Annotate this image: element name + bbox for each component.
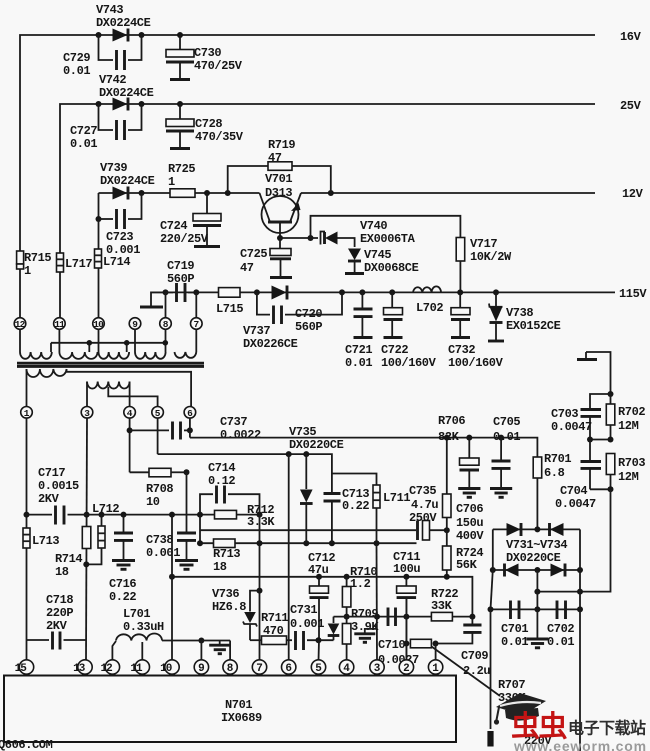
svg-text:R709: R709 — [351, 607, 378, 621]
capacitor C732 — [448, 292, 504, 370]
capacitor C721 — [345, 289, 373, 370]
svg-text:2: 2 — [403, 663, 409, 675]
svg-text:0.0022: 0.0022 — [220, 428, 261, 442]
resistor R707 — [403, 639, 526, 705]
diode V735 DX0220CE labels — [289, 425, 344, 452]
svg-text:0.01: 0.01 — [493, 430, 520, 444]
wire pin6 column — [288, 454, 290, 660]
svg-text:2KV: 2KV — [38, 492, 60, 506]
pin 7 — [191, 318, 203, 330]
wire 12V rail — [99, 193, 596, 219]
svg-text:2KV: 2KV — [46, 619, 68, 633]
svg-text:L711: L711 — [383, 491, 410, 505]
pin 10 — [93, 318, 105, 330]
svg-text:9: 9 — [198, 663, 204, 675]
svg-text:12: 12 — [15, 319, 26, 330]
svg-text:L714: L714 — [103, 255, 130, 269]
svg-text:2.2u: 2.2u — [463, 664, 490, 678]
transformer primary winding P1 — [27, 369, 192, 407]
svg-text:7: 7 — [256, 663, 262, 675]
resistor R701 — [533, 452, 571, 529]
pin 3 — [81, 407, 93, 419]
ground at pin8 — [201, 641, 230, 661]
pin 9 — [129, 318, 141, 330]
svg-text:L715: L715 — [216, 302, 243, 316]
wire bridge right side — [579, 529, 581, 609]
svg-text:47u: 47u — [308, 563, 329, 577]
capacitor C709 — [436, 617, 491, 678]
svg-text:R703: R703 — [618, 456, 645, 470]
svg-text:C727: C727 — [70, 124, 97, 138]
wire 115V rail — [151, 291, 615, 293]
wire pin4 down — [127, 418, 133, 472]
svg-text:N701: N701 — [225, 698, 252, 712]
svg-text:400V: 400V — [456, 529, 484, 543]
svg-text:DX0220CE: DX0220CE — [289, 438, 344, 452]
wire secondary pin stubs — [20, 329, 196, 352]
IC pin 6 — [282, 660, 296, 675]
svg-text:3.3K: 3.3K — [247, 515, 275, 529]
wire pin1 column IC — [435, 644, 437, 660]
inductor L713 — [23, 528, 59, 548]
node 16V — [620, 30, 642, 44]
svg-text:DX0226CE: DX0226CE — [243, 337, 298, 351]
svg-text:6: 6 — [285, 663, 291, 675]
diode V739 DX0224CE — [100, 161, 155, 200]
svg-text:R707: R707 — [498, 678, 525, 692]
ground at C706 — [458, 489, 480, 498]
svg-text:C729: C729 — [63, 51, 90, 65]
svg-text:1: 1 — [168, 175, 175, 189]
capacitor C706 — [456, 435, 484, 543]
svg-text:0.01: 0.01 — [70, 137, 97, 151]
inductor L702 — [413, 286, 443, 315]
bridge V731~V734 DX0220CE — [506, 538, 567, 565]
svg-text:R702: R702 — [618, 405, 645, 419]
svg-text:C732: C732 — [448, 343, 475, 357]
junction R702 top — [608, 391, 614, 397]
watermark cap icon — [494, 693, 546, 725]
diode V737 DX0226CE — [243, 286, 298, 352]
resistor R715 — [17, 251, 52, 278]
svg-text:56K: 56K — [456, 558, 478, 572]
svg-text:C737: C737 — [220, 415, 247, 429]
svg-text:DX0220CE: DX0220CE — [506, 551, 561, 565]
svg-text:0.01: 0.01 — [63, 64, 90, 78]
svg-text:10: 10 — [146, 495, 160, 509]
wire AC right line — [579, 609, 581, 751]
svg-text:C704: C704 — [560, 484, 587, 498]
svg-text:R725: R725 — [168, 162, 195, 176]
IC pin 13 — [73, 660, 92, 675]
IC pin 10 — [160, 660, 179, 675]
svg-text:47: 47 — [268, 151, 282, 165]
wire 617 row — [334, 614, 476, 620]
svg-text:EX0152CE: EX0152CE — [506, 319, 561, 333]
inductor L714 — [95, 219, 131, 318]
svg-text:www.eeworm.com: www.eeworm.com — [513, 738, 647, 751]
IC pin 2 — [399, 660, 413, 675]
capacitor C718 — [27, 593, 87, 650]
wire R711 row — [250, 639, 262, 641]
svg-text:1.2: 1.2 — [350, 577, 371, 591]
svg-text:4.7u: 4.7u — [411, 498, 438, 512]
svg-text:6.8: 6.8 — [544, 466, 565, 480]
inductor L717 — [57, 253, 93, 272]
inductor L711 — [332, 474, 411, 544]
svg-text:1: 1 — [24, 264, 31, 278]
capacitor C717 — [27, 466, 87, 525]
svg-text:R715: R715 — [24, 251, 51, 265]
svg-text:0.22: 0.22 — [109, 590, 136, 604]
capacitor C725 — [240, 238, 292, 278]
wire pin3 column — [84, 418, 90, 660]
svg-text:0.0047: 0.0047 — [555, 497, 596, 511]
IC pin 9 — [194, 660, 208, 675]
terminal AC left — [487, 731, 493, 747]
corner site text — [0, 738, 53, 751]
svg-text:V717: V717 — [470, 237, 497, 251]
IC pin 7 — [252, 660, 266, 675]
capacitor C719 — [166, 259, 197, 302]
capacitor C711 — [393, 550, 420, 661]
capacitor C703 — [551, 394, 611, 440]
svg-text:C706: C706 — [456, 502, 483, 516]
node 115V — [619, 287, 647, 301]
svg-text:15: 15 — [15, 663, 28, 675]
wire winding link line — [51, 340, 168, 352]
svg-text:DX0068CE: DX0068CE — [364, 261, 419, 275]
diode V740 EX0006TA — [321, 219, 416, 247]
svg-text:R708: R708 — [146, 482, 173, 496]
svg-text:C738: C738 — [146, 533, 173, 547]
svg-text:C725: C725 — [240, 247, 267, 261]
capacitor C701 — [501, 601, 528, 650]
wire main 515 row — [87, 512, 263, 518]
svg-text:C703: C703 — [551, 407, 578, 421]
svg-text:C709: C709 — [461, 649, 488, 663]
svg-text:C722: C722 — [381, 343, 408, 357]
capacitor C716 — [109, 515, 136, 604]
node 220V label — [524, 734, 552, 748]
junction dots 16V row — [96, 32, 184, 38]
svg-text:C723: C723 — [106, 230, 133, 244]
pin 4 — [124, 407, 136, 419]
svg-text:C705: C705 — [493, 415, 520, 429]
wire pin7 column — [257, 515, 263, 661]
svg-text:47: 47 — [240, 261, 254, 275]
pin 5 — [152, 407, 164, 419]
resistor R710 — [342, 565, 377, 617]
wire 25V rail — [60, 104, 595, 318]
svg-text:C728: C728 — [195, 117, 222, 131]
wire bridge left side — [492, 529, 494, 570]
svg-text:0.01: 0.01 — [345, 356, 372, 370]
capacitor C712 — [308, 551, 335, 640]
svg-text:C724: C724 — [160, 219, 187, 233]
pin 6 — [184, 407, 196, 419]
svg-text:100/160V: 100/160V — [448, 356, 504, 370]
wire line B from pin5 — [158, 418, 332, 473]
svg-text:220/25V: 220/25V — [160, 232, 209, 246]
diode V733 — [505, 564, 519, 577]
svg-text:V701: V701 — [265, 172, 292, 186]
svg-text:IX0689: IX0689 — [221, 711, 262, 725]
svg-text:12M: 12M — [618, 470, 639, 484]
svg-text:11: 11 — [54, 319, 65, 330]
svg-text:470/25V: 470/25V — [194, 59, 243, 73]
pin 11 — [54, 318, 66, 330]
svg-text:10K/2W: 10K/2W — [470, 250, 512, 264]
svg-text:R711: R711 — [261, 611, 288, 625]
svg-text:V737: V737 — [243, 324, 270, 338]
capacitor C731 — [290, 603, 334, 650]
resistor R708 — [130, 468, 190, 509]
node 12V — [622, 187, 644, 201]
watermark site name — [568, 719, 646, 738]
svg-text:V738: V738 — [506, 306, 533, 320]
capacitor C728 — [166, 104, 244, 149]
wire AC left line — [491, 570, 493, 729]
wire emitter to V740 — [280, 237, 318, 239]
transformer secondary windings — [20, 352, 196, 359]
resistor R724 — [443, 530, 484, 577]
svg-text:L702: L702 — [416, 301, 443, 315]
svg-text:D313: D313 — [265, 186, 292, 200]
svg-text:C716: C716 — [109, 577, 136, 591]
svg-text:C719: C719 — [167, 259, 194, 273]
leader line R707 — [432, 647, 501, 697]
ground at C716 — [112, 561, 135, 570]
diode V743 DX0224CE — [96, 3, 151, 42]
svg-text:L713: L713 — [32, 534, 59, 548]
capacitor C729 — [63, 35, 142, 78]
inductor L715 — [216, 288, 243, 316]
IC pin 8 — [223, 660, 237, 675]
wire bridge mid column — [534, 570, 540, 612]
svg-text:L701: L701 — [123, 607, 150, 621]
svg-text:0.0015: 0.0015 — [38, 479, 79, 493]
capacitor C730 — [166, 35, 243, 80]
wire line A from pin6 — [190, 418, 538, 457]
junction pin8 top — [163, 289, 169, 318]
capacitor C723 — [96, 193, 142, 257]
svg-text:R706: R706 — [438, 414, 465, 428]
junction V737 left — [254, 289, 260, 295]
wire C701 C702 row — [488, 606, 584, 612]
IC pin 1 — [428, 660, 442, 675]
svg-text:C720: C720 — [295, 307, 322, 321]
svg-text:C717: C717 — [38, 466, 65, 480]
diode V742 DX0224CE — [99, 73, 154, 111]
pin 8 — [160, 318, 172, 330]
ground at C701 C702 — [526, 609, 548, 647]
svg-text:R714: R714 — [55, 552, 82, 566]
wire C735 row — [200, 529, 416, 531]
svg-text:DX0224CE: DX0224CE — [99, 86, 154, 100]
chassis stub top right — [577, 352, 611, 394]
transistor V701 D313 — [260, 172, 302, 238]
resistor R703 — [606, 454, 645, 493]
svg-text:C702: C702 — [547, 622, 574, 636]
svg-text:12: 12 — [101, 663, 113, 675]
capacitor C720 — [257, 289, 345, 334]
ground at pin3 — [354, 629, 377, 642]
pin 12 — [14, 318, 26, 330]
wire pin7 to rail — [193, 289, 199, 318]
capacitor C704 — [555, 440, 611, 512]
svg-text:R719: R719 — [268, 138, 295, 152]
capacitor C713 — [324, 474, 370, 544]
capacitor C722 — [381, 289, 437, 370]
svg-text:33K: 33K — [431, 599, 453, 613]
resistor V717 10K/2W — [456, 237, 512, 292]
svg-text:C721: C721 — [345, 343, 372, 357]
watermark url — [513, 738, 647, 751]
IC pin 5 — [311, 660, 325, 675]
capacitor C737 — [130, 415, 261, 442]
capacitor C735 — [409, 484, 450, 540]
diode V736 HZ6.8 — [212, 587, 260, 640]
resistor R709 — [342, 607, 379, 661]
wire 16V rail — [20, 35, 595, 318]
svg-text:0.33uH: 0.33uH — [123, 620, 164, 634]
svg-text:V742: V742 — [99, 73, 126, 87]
inductor L701 — [112, 607, 204, 661]
svg-text:L717: L717 — [65, 257, 92, 271]
capacitor C738 — [146, 472, 196, 560]
svg-text:V731~V734: V731~V734 — [506, 538, 567, 552]
svg-text:115V: 115V — [619, 287, 647, 301]
svg-text:100u: 100u — [393, 562, 420, 576]
pin 1 — [21, 407, 33, 419]
wire bridge top row — [493, 526, 580, 532]
resistor R713 — [197, 515, 260, 574]
wire pin3 column — [376, 543, 379, 660]
svg-text:250V: 250V — [409, 511, 437, 525]
resistor R722 — [431, 587, 458, 621]
wire pin10 column — [171, 515, 173, 661]
svg-text:10: 10 — [160, 663, 172, 675]
junction emitter node — [277, 235, 314, 241]
svg-text:Q606.COM: Q606.COM — [0, 738, 53, 751]
diode V732 — [550, 523, 564, 536]
svg-text:560P: 560P — [295, 320, 322, 334]
svg-text:0.12: 0.12 — [208, 474, 235, 488]
svg-text:18: 18 — [213, 560, 227, 574]
IC N701 IX0689 — [4, 676, 456, 743]
capacitor C727 — [70, 104, 142, 151]
svg-text:R713: R713 — [213, 547, 240, 561]
IC pin 11 — [130, 660, 149, 675]
capacitor C724 — [160, 193, 221, 247]
svg-text:25V: 25V — [620, 99, 642, 113]
svg-text:12M: 12M — [618, 419, 639, 433]
wire D row — [169, 574, 472, 617]
IC pin 4 — [339, 660, 353, 675]
diode V731 — [507, 523, 522, 536]
svg-text:C730: C730 — [194, 46, 221, 60]
svg-text:18: 18 — [55, 565, 69, 579]
svg-text:82K: 82K — [438, 430, 460, 444]
svg-text:V745: V745 — [364, 248, 391, 262]
svg-text:L712: L712 — [92, 502, 119, 516]
wire pin5 column — [318, 640, 321, 660]
wire pin11 stub — [141, 642, 143, 661]
svg-text:220P: 220P — [46, 606, 73, 620]
ground at C705 — [490, 489, 512, 498]
svg-text:0.22: 0.22 — [342, 499, 369, 513]
capacitor C714 — [200, 461, 260, 515]
diode zener at pin4 area — [328, 617, 340, 641]
junction dots 12V row — [139, 190, 334, 196]
svg-text:11: 11 — [130, 663, 143, 675]
svg-text:560P: 560P — [167, 272, 194, 286]
svg-text:电子下载站: 电子下载站 — [568, 719, 646, 738]
IC pin 3 — [370, 660, 384, 675]
ground at C738 — [175, 561, 198, 570]
diode V738 EX0152CE — [488, 289, 561, 341]
svg-text:V740: V740 — [360, 219, 387, 233]
ground at C719 — [140, 292, 166, 307]
capacitor C702 — [547, 601, 574, 650]
svg-text:470: 470 — [263, 624, 284, 638]
svg-text:16V: 16V — [620, 30, 642, 44]
svg-text:0.01: 0.01 — [501, 635, 528, 649]
svg-text:V736: V736 — [212, 587, 239, 601]
capacitor C710 — [378, 608, 419, 668]
resistor R725 — [168, 162, 195, 197]
svg-text:10: 10 — [93, 319, 104, 330]
transformer primary winding P2 — [87, 382, 158, 407]
wire C row — [260, 540, 417, 546]
svg-text:DX0224CE: DX0224CE — [96, 16, 151, 30]
resistor R706 — [438, 414, 465, 530]
wire emitter node to V717 — [311, 216, 461, 238]
diode V735 zener — [300, 454, 313, 543]
svg-text:C718: C718 — [46, 593, 73, 607]
svg-text:HZ6.8: HZ6.8 — [212, 600, 246, 614]
svg-text:V743: V743 — [96, 3, 123, 17]
wire divider bottom to bridge — [534, 489, 610, 594]
junction mid divider — [587, 437, 614, 443]
wire bridge bottom row — [490, 567, 583, 573]
resistor R712 — [215, 503, 276, 529]
svg-text:C735: C735 — [409, 484, 436, 498]
svg-text:470/35V: 470/35V — [195, 130, 244, 144]
svg-text:V739: V739 — [100, 161, 127, 175]
IC pin 12 — [101, 660, 120, 675]
svg-text:100/160V: 100/160V — [381, 356, 437, 370]
svg-text:0.01: 0.01 — [547, 635, 574, 649]
diode V745 DX0068CE — [345, 248, 419, 275]
svg-text:C714: C714 — [208, 461, 235, 475]
wire pin1 column — [24, 418, 30, 660]
IC pin 15 — [15, 660, 34, 675]
svg-text:150u: 150u — [456, 516, 483, 530]
inductor L712 — [83, 502, 119, 567]
svg-text:13: 13 — [73, 663, 86, 675]
svg-text:0.001: 0.001 — [146, 546, 180, 560]
svg-text:V735: V735 — [289, 425, 316, 439]
wire pin9 stub — [200, 641, 202, 661]
svg-text:0.001: 0.001 — [290, 617, 324, 631]
resistor R702 — [606, 394, 645, 440]
svg-text:0.0047: 0.0047 — [551, 420, 592, 434]
svg-text:C701: C701 — [501, 622, 528, 636]
resistor R719 — [228, 138, 331, 193]
wire pin2 column — [405, 598, 407, 660]
